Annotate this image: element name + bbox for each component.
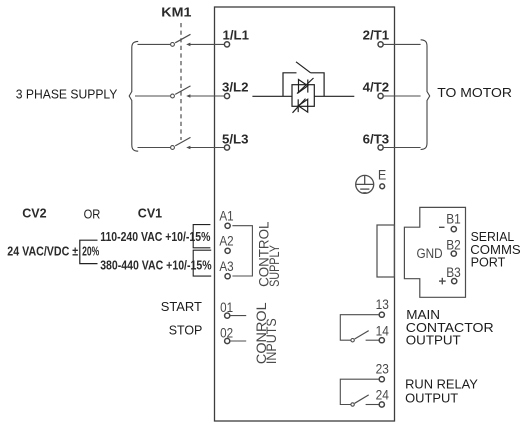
- terminal B2: [446, 237, 461, 257]
- terminal 6/T3: [363, 132, 390, 150]
- terminal 1/L1: [223, 28, 250, 47]
- wire relay1: [340, 315, 379, 341]
- thyristor SCR1 (top): [297, 78, 314, 94]
- thyristor SCR2 (bottom): [293, 99, 308, 113]
- wire to 24: [366, 404, 380, 406]
- terminal B1: [439, 211, 461, 232]
- terminal E: [378, 167, 387, 189]
- wire T3 to motor: [383, 147, 420, 149]
- dashed mechanical link of KM1: [180, 23, 182, 140]
- terminal 02: [220, 325, 233, 344]
- svg-text:14: 14: [376, 323, 389, 339]
- wire supply L3: [138, 147, 171, 149]
- comms socket on box: [377, 225, 394, 277]
- terminal 2/T1: [363, 28, 390, 47]
- svg-text:START: START: [161, 299, 202, 314]
- svg-text:B3: B3: [446, 264, 461, 280]
- bracket 380-440 to A2A3: [193, 250, 211, 276]
- 3 phase supply brace: [129, 41, 138, 151]
- svg-text:OUTPUT: OUTPUT: [405, 390, 458, 405]
- wire L2 internal right: [314, 95, 354, 97]
- svg-text:A3: A3: [219, 258, 233, 274]
- main enclosure box: [215, 7, 395, 421]
- svg-text:24 VAC/VDC ±: 24 VAC/VDC ±: [7, 243, 78, 258]
- svg-text:5/L3: 5/L3: [222, 132, 249, 147]
- wire supply L1: [138, 43, 171, 45]
- terminal 5/L3: [222, 132, 249, 150]
- svg-text:24: 24: [376, 386, 389, 402]
- svg-text:13: 13: [376, 296, 389, 312]
- svg-text:110-240 VAC +10/-15%: 110-240 VAC +10/-15%: [100, 229, 211, 244]
- terminal 4/T2: [363, 80, 390, 99]
- wire to 14: [366, 339, 380, 341]
- svg-text:KM1: KM1: [161, 5, 192, 19]
- label SERIAL COMMS PORT: [470, 229, 521, 269]
- contactor KM1 pole 2: [171, 86, 191, 98]
- terminal 01: [220, 299, 233, 318]
- svg-text:OR: OR: [84, 207, 101, 222]
- wire L2 to terminal: [190, 95, 225, 97]
- svg-text:2/T1: 2/T1: [363, 28, 390, 43]
- earth symbol: [356, 175, 374, 193]
- terminal 13: [376, 296, 389, 317]
- relay contact 13-14: [351, 331, 369, 342]
- svg-text:CV2: CV2: [22, 207, 46, 221]
- terminal A3: [219, 258, 233, 279]
- terminal 24: [376, 386, 389, 407]
- terminal B3: [439, 264, 461, 284]
- thyristor block rectangle: [292, 85, 314, 107]
- svg-text:OUTPUT: OUTPUT: [406, 333, 461, 348]
- svg-text:20%: 20%: [82, 245, 99, 259]
- contactor KM1 pole 3: [171, 137, 191, 149]
- wire L2 internal left: [252, 95, 292, 97]
- wire T2 to motor: [383, 95, 420, 97]
- serial comms plug outline: [404, 207, 465, 297]
- svg-text:SUPPLY: SUPPLY: [267, 245, 283, 287]
- relay contact 23-24: [351, 395, 369, 406]
- to motor brace: [421, 40, 430, 150]
- bracket 110-240 to A1A2: [193, 225, 210, 248]
- svg-text:3/L2: 3/L2: [222, 80, 249, 95]
- terminal 23: [376, 360, 389, 381]
- terminal A1: [219, 207, 233, 228]
- wire relay2: [340, 379, 379, 404]
- svg-text:RUN RELAY: RUN RELAY: [405, 376, 478, 391]
- svg-text:380-440 VAC +10/-15%: 380-440 VAC +10/-15%: [100, 258, 212, 273]
- label RUN RELAY OUTPUT: [405, 376, 478, 405]
- svg-text:1/L1: 1/L1: [223, 28, 250, 43]
- svg-text:PORT: PORT: [471, 255, 506, 270]
- svg-text:4/T2: 4/T2: [363, 80, 390, 95]
- svg-text:3 PHASE SUPPLY: 3 PHASE SUPPLY: [16, 87, 118, 101]
- terminal A2: [219, 232, 233, 253]
- svg-text:6/T3: 6/T3: [363, 132, 390, 147]
- bracket 24V to rows: [80, 240, 98, 263]
- label MAIN CONTACTOR OUTPUT: [406, 307, 494, 347]
- svg-text:GND: GND: [417, 245, 443, 261]
- svg-text:E: E: [378, 167, 387, 183]
- svg-text:B1: B1: [446, 211, 461, 227]
- svg-text:TO MOTOR: TO MOTOR: [437, 86, 512, 100]
- wire L1 to terminal: [190, 43, 225, 45]
- wire input 01: [230, 315, 246, 317]
- wire supply L2: [135, 95, 170, 97]
- svg-text:A2: A2: [219, 232, 233, 248]
- svg-text:INPUTS: INPUTS: [264, 318, 280, 364]
- wire input 02: [230, 340, 246, 342]
- svg-text:CV1: CV1: [138, 207, 162, 221]
- wire L3 to terminal: [190, 147, 225, 149]
- bypass contact over SCR: [283, 62, 324, 97]
- svg-text:STOP: STOP: [169, 322, 203, 337]
- bracket A1-A3: [232, 226, 252, 276]
- terminal 3/L2: [222, 80, 249, 99]
- svg-text:A1: A1: [219, 207, 233, 223]
- svg-text:23: 23: [376, 360, 389, 376]
- contactor KM1 pole 1: [171, 34, 191, 46]
- terminal 14: [376, 323, 389, 343]
- wire T1 to motor: [383, 43, 420, 45]
